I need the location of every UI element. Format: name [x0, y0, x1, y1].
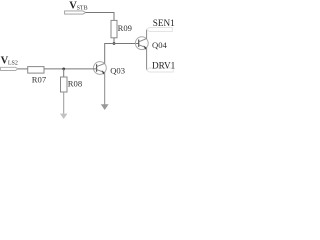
- wire V_STB to R09: [86, 13, 114, 21]
- arrow below Q03: [101, 104, 109, 110]
- junction below R09: [113, 42, 116, 45]
- resistor R09: [111, 20, 117, 37]
- off-page flag DRV1: [147, 68, 174, 72]
- svg-text:R08: R08: [68, 78, 82, 88]
- svg-text:DRV1: DRV1: [152, 61, 175, 71]
- svg-text:SEN1: SEN1: [153, 18, 175, 28]
- resistor R08: [61, 77, 68, 92]
- transistor Q03: [94, 62, 107, 75]
- off-page flag V_LS2: [1, 67, 18, 70]
- wire Q04 emitter to DRV1: [146, 48, 148, 70]
- wire V_LS2 to R07: [18, 68, 28, 70]
- svg-text:R07: R07: [32, 75, 47, 85]
- wire junction to Q03 collector: [105, 44, 114, 64]
- wire Q04 collector to SEN1: [146, 29, 148, 38]
- wire Q03 emitter down: [104, 73, 106, 105]
- svg-text:R09: R09: [118, 23, 132, 33]
- svg-text:Q03: Q03: [110, 65, 125, 75]
- junction at R08 top: [62, 68, 65, 71]
- wire junction to R08: [63, 69, 65, 77]
- resistor R07: [28, 67, 44, 74]
- wire R08 to arrow: [63, 92, 65, 114]
- off-page flag SEN1: [147, 27, 173, 31]
- wire R07 to Q03 base: [44, 68, 97, 70]
- wire R09 to junction: [113, 38, 115, 44]
- svg-text:LS2: LS2: [8, 60, 18, 66]
- arrow below R08: [60, 114, 67, 119]
- transistor Q04: [135, 37, 148, 50]
- svg-text:Q04: Q04: [152, 40, 168, 50]
- off-page flag V_STB: [65, 11, 86, 14]
- wire junction to Q04 base: [114, 43, 139, 45]
